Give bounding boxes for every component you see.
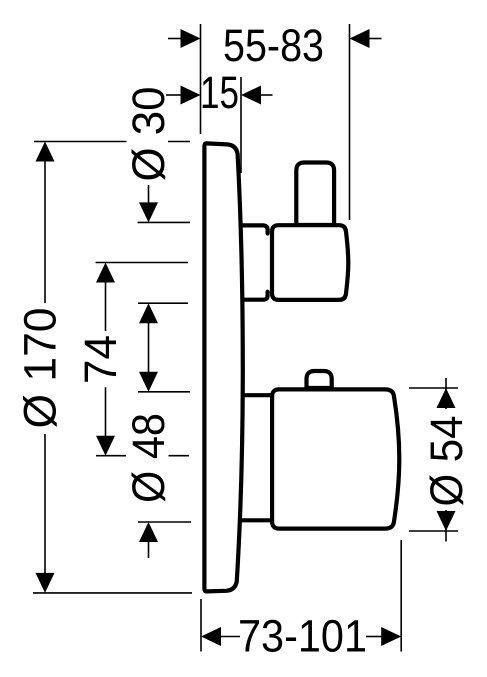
svg-text:Ø 170: Ø 170 (14, 308, 65, 429)
svg-text:55-83: 55-83 (223, 20, 324, 71)
svg-text:73-101: 73-101 (238, 611, 367, 662)
svg-text:15: 15 (200, 67, 239, 118)
svg-text:Ø 48: Ø 48 (123, 413, 174, 503)
svg-text:Ø 54: Ø 54 (421, 416, 472, 507)
svg-text:Ø 30: Ø 30 (123, 87, 174, 182)
svg-text:74: 74 (75, 335, 126, 384)
